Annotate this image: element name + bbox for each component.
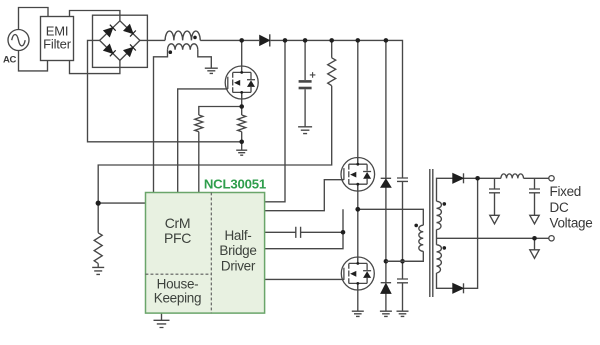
svg-text:Driver: Driver [221, 258, 256, 273]
svg-text:Bridge: Bridge [219, 243, 256, 258]
svg-text:Keeping: Keeping [154, 291, 201, 306]
svg-text:AC: AC [3, 54, 17, 65]
svg-text:Filter: Filter [43, 36, 72, 51]
svg-text:Voltage: Voltage [550, 215, 593, 230]
svg-text:House-: House- [157, 276, 199, 291]
svg-text:CrM: CrM [165, 215, 191, 231]
svg-text:Fixed: Fixed [550, 184, 582, 199]
svg-text:NCL30051: NCL30051 [204, 176, 266, 191]
svg-text:PFC: PFC [164, 230, 191, 246]
svg-text:Half-: Half- [224, 228, 251, 243]
svg-text:DC: DC [550, 200, 569, 215]
